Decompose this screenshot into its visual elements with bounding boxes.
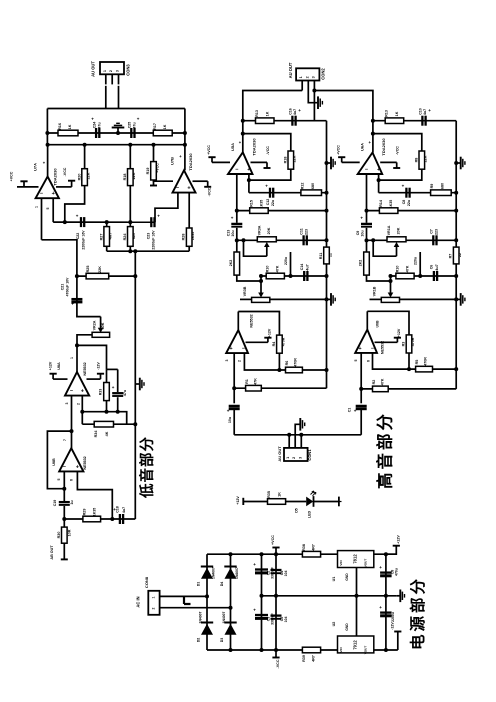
svg-text:3: 3 bbox=[116, 70, 120, 72]
terminal +12V out bbox=[386, 546, 396, 555]
wire wiper loop bbox=[244, 240, 267, 256]
wire T1 minus row bbox=[237, 210, 327, 212]
resistor R18t bbox=[288, 151, 294, 169]
svg-text:−: − bbox=[40, 191, 43, 197]
ground bbox=[317, 96, 319, 109]
svg-text:+: + bbox=[52, 191, 55, 197]
svg-text:4u7: 4u7 bbox=[293, 109, 297, 115]
wire T2 minus row bbox=[367, 210, 457, 212]
svg-text:VIN: VIN bbox=[339, 647, 343, 653]
resistor R13b bbox=[385, 118, 404, 124]
svg-text:10u: 10u bbox=[228, 417, 232, 423]
svg-text:GND: GND bbox=[345, 623, 349, 631]
resistor R1 bbox=[246, 385, 262, 391]
wire jog to pot wiper bbox=[367, 275, 391, 281]
svg-text:R6: R6 bbox=[285, 361, 289, 366]
svg-text:NE5532: NE5532 bbox=[249, 314, 253, 327]
wire bottom row bbox=[107, 250, 190, 252]
svg-text:R17: R17 bbox=[153, 123, 157, 130]
wire pot3b row bbox=[370, 298, 382, 300]
wire T3 left input bbox=[233, 353, 235, 403]
power +12V bbox=[53, 378, 67, 380]
svg-text:1N4007: 1N4007 bbox=[222, 611, 226, 623]
wire bbox=[46, 109, 48, 145]
wire bbox=[65, 186, 85, 223]
diode D1 bbox=[201, 566, 213, 568]
svg-text:R10: R10 bbox=[395, 266, 399, 273]
wire bbox=[249, 169, 291, 180]
svg-text:−: − bbox=[70, 389, 73, 395]
wire U7A + input bbox=[52, 198, 54, 222]
svg-text:TDA2030: TDA2030 bbox=[52, 168, 57, 186]
svg-text:1: 1 bbox=[35, 206, 39, 208]
resistor R18 bbox=[129, 145, 131, 169]
svg-text:22: 22 bbox=[458, 253, 462, 257]
svg-text:D1: D1 bbox=[197, 582, 201, 587]
svg-text:10u: 10u bbox=[231, 230, 235, 236]
power +VCC tap bbox=[272, 547, 279, 549]
svg-text:VOUT: VOUT bbox=[364, 646, 368, 655]
power -VCC bbox=[251, 161, 268, 163]
wire bottom rail bbox=[207, 649, 398, 651]
svg-text:10u: 10u bbox=[361, 230, 365, 236]
svg-text:C22: C22 bbox=[76, 233, 80, 240]
svg-text:1K35: 1K35 bbox=[93, 508, 97, 517]
svg-text:C10: C10 bbox=[419, 108, 423, 115]
svg-text:104: 104 bbox=[284, 617, 288, 623]
svg-text:C14: C14 bbox=[300, 264, 304, 271]
capacitor C7 bbox=[432, 235, 434, 245]
resistor R17 bbox=[153, 130, 172, 136]
wire bbox=[367, 311, 409, 335]
svg-text:U7B: U7B bbox=[170, 157, 175, 165]
wire U7B + input / resistor R28 bbox=[188, 193, 190, 228]
svg-text:2: 2 bbox=[152, 607, 156, 609]
svg-text:+: + bbox=[253, 562, 256, 567]
capacitor C12 bbox=[269, 188, 271, 198]
svg-text:C11: C11 bbox=[300, 228, 304, 234]
svg-text:1K: 1K bbox=[163, 124, 167, 129]
svg-text:R27: R27 bbox=[99, 234, 103, 241]
wire wiper loop bbox=[373, 240, 396, 256]
capacitor C6 bbox=[433, 271, 435, 281]
resistor 2K2 below C9t bbox=[366, 240, 368, 252]
resistor R11 on rail bbox=[324, 247, 330, 264]
capacitor C25 bbox=[130, 128, 132, 138]
svg-text:TDA2030: TDA2030 bbox=[188, 153, 193, 171]
svg-text:VOUT: VOUT bbox=[364, 559, 368, 568]
svg-text:+: + bbox=[265, 184, 268, 189]
potentiometer VR1A bbox=[396, 246, 398, 256]
svg-text:223: 223 bbox=[434, 229, 438, 235]
capacitor C23 bbox=[150, 217, 152, 227]
svg-text:C12: C12 bbox=[266, 199, 270, 206]
wire treble bus bbox=[243, 91, 302, 153]
svg-text:20K: 20K bbox=[397, 227, 401, 234]
svg-text:+VCC: +VCC bbox=[156, 163, 160, 173]
op-amp U7B bbox=[173, 170, 196, 192]
wire row1 T1 bbox=[243, 120, 327, 122]
wire output row bbox=[64, 518, 135, 520]
svg-text:R13: R13 bbox=[385, 110, 389, 117]
svg-text:D4: D4 bbox=[220, 582, 224, 587]
svg-text:VR1B: VR1B bbox=[373, 286, 377, 296]
wire pot3a row bbox=[240, 298, 252, 300]
svg-text:R19: R19 bbox=[146, 168, 150, 175]
svg-text:47K: 47K bbox=[254, 378, 258, 385]
svg-text:-12V: -12V bbox=[97, 362, 101, 370]
capacitor C18 bbox=[119, 514, 121, 524]
svg-text:CON2: CON2 bbox=[321, 68, 326, 80]
wire bbox=[118, 86, 120, 109]
wire U6B output bbox=[366, 311, 368, 329]
svg-text:22u: 22u bbox=[407, 200, 411, 206]
power +12V T4 bbox=[375, 341, 398, 343]
svg-text:4u7: 4u7 bbox=[423, 109, 427, 115]
svg-text:+: + bbox=[81, 389, 84, 395]
wire rail1 bottom bbox=[326, 370, 328, 388]
wire U8A inputs bbox=[71, 396, 73, 449]
wire rail2 bottom bbox=[455, 369, 457, 389]
svg-text:U8B: U8B bbox=[52, 458, 56, 466]
svg-text:2: 2 bbox=[77, 403, 81, 405]
svg-text:+: + bbox=[157, 214, 160, 219]
capacitor C9 bbox=[380, 611, 392, 613]
svg-text:C21: C21 bbox=[61, 284, 65, 291]
wire U2 gnd bbox=[356, 596, 358, 636]
wire pot left bbox=[77, 335, 107, 370]
svg-text:1N4007: 1N4007 bbox=[235, 567, 239, 579]
wire bbox=[184, 109, 186, 171]
regulator U2 7912 bbox=[338, 636, 374, 653]
svg-text:223: 223 bbox=[305, 229, 309, 235]
svg-text:R3: R3 bbox=[402, 342, 406, 347]
svg-text:+: + bbox=[76, 464, 79, 470]
wire T2 feedback row bbox=[379, 192, 457, 194]
wire pot row T1 bbox=[237, 239, 257, 241]
svg-text:22u: 22u bbox=[271, 200, 275, 206]
capacitor C4 104 bbox=[275, 548, 277, 658]
svg-text:+: + bbox=[253, 608, 256, 613]
wire U7B - input bbox=[155, 193, 178, 223]
resistor R9 bbox=[431, 190, 452, 196]
svg-text:VR3A: VR3A bbox=[258, 225, 262, 235]
resistor R39 bbox=[302, 647, 320, 653]
svg-text:+: + bbox=[187, 186, 190, 192]
svg-text:D5: D5 bbox=[295, 508, 299, 513]
wire T2 + input bbox=[378, 174, 380, 193]
svg-text:-VCC: -VCC bbox=[208, 187, 212, 196]
wire T1 - input bbox=[236, 174, 238, 211]
wire rail1 bbox=[326, 121, 328, 370]
svg-text:1K35: 1K35 bbox=[389, 200, 393, 209]
svg-text:3: 3 bbox=[311, 76, 315, 78]
wire bus1 bbox=[47, 108, 185, 110]
svg-text:470R: 470R bbox=[424, 357, 428, 366]
svg-text:R7: R7 bbox=[449, 254, 453, 259]
svg-text:D2: D2 bbox=[197, 638, 201, 643]
svg-text:47u: 47u bbox=[133, 122, 137, 128]
svg-text:1: 1 bbox=[152, 596, 156, 598]
svg-text:C18: C18 bbox=[116, 506, 120, 513]
svg-text:4u7: 4u7 bbox=[305, 264, 309, 270]
resistor R16t below C13 bbox=[236, 240, 238, 252]
svg-text:1K: 1K bbox=[278, 492, 282, 497]
svg-text:22K: 22K bbox=[424, 155, 428, 162]
svg-text:U8A: U8A bbox=[57, 362, 61, 370]
capacitor C24 bbox=[95, 128, 97, 138]
svg-text:6: 6 bbox=[70, 479, 74, 481]
wire bbox=[379, 169, 422, 180]
svg-text:470R: 470R bbox=[281, 337, 285, 346]
svg-text:2K2: 2K2 bbox=[229, 260, 233, 267]
svg-text:+: + bbox=[231, 216, 234, 221]
polarity mark bbox=[184, 596, 191, 604]
capacitor C9t bbox=[366, 211, 368, 223]
svg-text:C23: C23 bbox=[146, 233, 150, 240]
resistor R20 bbox=[84, 145, 86, 169]
wire bbox=[300, 435, 302, 448]
svg-text:U5A: U5A bbox=[230, 143, 235, 151]
wire bbox=[314, 501, 339, 503]
svg-text:C19: C19 bbox=[53, 500, 57, 507]
svg-text:低音部分: 低音部分 bbox=[138, 436, 156, 499]
wire bbox=[233, 410, 235, 435]
svg-text:+12V: +12V bbox=[397, 328, 401, 337]
terminal bbox=[338, 497, 340, 507]
ground bbox=[397, 595, 401, 597]
wire jog to pot3a wiper bbox=[237, 275, 261, 281]
svg-text:C7: C7 bbox=[429, 229, 433, 234]
svg-text:R5: R5 bbox=[415, 360, 419, 365]
svg-text:5: 5 bbox=[46, 207, 50, 209]
svg-text:D3: D3 bbox=[220, 638, 224, 643]
svg-text:1K35: 1K35 bbox=[191, 232, 195, 241]
svg-text:−: − bbox=[235, 167, 238, 173]
ground bbox=[117, 128, 119, 134]
svg-text:4700uF 16V: 4700uF 16V bbox=[65, 277, 69, 296]
wire stub 220u bbox=[419, 252, 421, 276]
svg-text:R15: R15 bbox=[249, 200, 253, 207]
svg-text:+: + bbox=[360, 216, 363, 221]
svg-text:680: 680 bbox=[441, 183, 445, 189]
svg-text:-VCC: -VCC bbox=[266, 146, 270, 155]
resistor R29 bbox=[83, 516, 101, 522]
wire T3 feedback row bbox=[244, 353, 326, 370]
capacitor C22 bbox=[80, 217, 82, 227]
svg-text:4K: 4K bbox=[105, 431, 109, 436]
wire cap row bbox=[53, 221, 155, 223]
wire rail2 bbox=[455, 121, 457, 369]
svg-text:47K: 47K bbox=[381, 378, 385, 385]
svg-text:4u7: 4u7 bbox=[435, 264, 439, 270]
wire bbox=[314, 91, 373, 153]
power -VCC bbox=[56, 186, 72, 188]
wire bbox=[118, 74, 120, 84]
svg-text:+12V: +12V bbox=[396, 535, 400, 544]
svg-text:R10: R10 bbox=[266, 266, 270, 273]
capacitor C3 3300uF bbox=[255, 614, 268, 616]
capacitor C11 bbox=[302, 235, 304, 245]
wire bbox=[288, 435, 290, 448]
potentiometer VR2A bbox=[100, 317, 102, 329]
svg-text:GND: GND bbox=[345, 573, 349, 581]
wire R1 row bbox=[234, 387, 326, 389]
svg-text:+: + bbox=[227, 409, 230, 414]
svg-text:50K: 50K bbox=[101, 322, 105, 329]
svg-text:6: 6 bbox=[367, 360, 371, 362]
svg-text:R2: R2 bbox=[372, 380, 376, 385]
svg-text:+: + bbox=[428, 108, 431, 113]
wire bbox=[243, 501, 267, 503]
wire T1 feedback row bbox=[249, 192, 327, 194]
wire bbox=[308, 81, 317, 103]
resistor R10b bbox=[396, 273, 414, 279]
svg-text:AU OUT: AU OUT bbox=[277, 446, 282, 462]
svg-text:R25: R25 bbox=[86, 266, 90, 273]
svg-text:C25: C25 bbox=[128, 122, 132, 129]
svg-text:+: + bbox=[91, 117, 94, 122]
svg-text:R18: R18 bbox=[283, 157, 287, 164]
svg-text:高音部分: 高音部分 bbox=[375, 411, 395, 489]
svg-text:+12V: +12V bbox=[236, 496, 240, 505]
power +12V T3 bbox=[246, 341, 268, 343]
svg-text:+12V: +12V bbox=[49, 361, 53, 370]
svg-text:+: + bbox=[379, 605, 382, 610]
svg-text:+VCC: +VCC bbox=[207, 145, 211, 155]
diode D2 bbox=[201, 622, 213, 624]
svg-text:C16: C16 bbox=[289, 108, 293, 115]
svg-text:2: 2 bbox=[109, 70, 113, 72]
wire U8A output bbox=[76, 345, 78, 372]
feedback network R33 C26 bbox=[107, 368, 118, 370]
capacitor C13 bbox=[236, 211, 238, 223]
wire bbox=[360, 410, 362, 435]
svg-text:NE5532: NE5532 bbox=[83, 362, 87, 375]
resistor R15 bbox=[250, 208, 269, 214]
svg-text:2K2: 2K2 bbox=[359, 260, 363, 267]
diode D3 bbox=[224, 622, 236, 624]
svg-text:VR3B: VR3B bbox=[243, 286, 247, 296]
capacitor C2 bbox=[229, 405, 240, 407]
power +VCC bbox=[212, 161, 230, 163]
svg-text:1: 1 bbox=[103, 70, 107, 72]
capacitor C1 bbox=[356, 405, 367, 407]
wire AC1 bbox=[160, 595, 207, 597]
wire bus2 bbox=[47, 132, 185, 134]
capacitor C5 104 bbox=[271, 614, 282, 616]
svg-text:10R: 10R bbox=[68, 529, 72, 536]
svg-text:AC IN: AC IN bbox=[135, 596, 140, 607]
resistor R24 bbox=[128, 227, 134, 247]
power +VCC bbox=[17, 186, 39, 188]
svg-text:VR2A: VR2A bbox=[93, 320, 97, 330]
resistor R30 bbox=[63, 519, 65, 527]
ground bbox=[456, 298, 461, 300]
connector CON2 AU OUT (treble) bbox=[296, 68, 319, 80]
svg-text:电源部分: 电源部分 bbox=[408, 576, 427, 650]
LED D5 bbox=[306, 497, 313, 507]
svg-text:TDA2030: TDA2030 bbox=[381, 138, 386, 156]
svg-text:VIN: VIN bbox=[339, 560, 343, 566]
wire bbox=[129, 186, 131, 227]
svg-text:R16: R16 bbox=[58, 123, 62, 130]
power -12V bbox=[87, 378, 101, 380]
svg-text:1K35: 1K35 bbox=[260, 200, 264, 209]
power +VCC bbox=[342, 161, 360, 163]
svg-text:−: − bbox=[365, 167, 368, 173]
svg-text:2: 2 bbox=[305, 76, 309, 78]
svg-text:620: 620 bbox=[132, 233, 136, 239]
svg-text:−: − bbox=[371, 346, 374, 352]
wire bridge column1 bbox=[206, 554, 208, 650]
svg-text:R1: R1 bbox=[245, 379, 249, 384]
wire bbox=[111, 74, 113, 84]
svg-text:1K: 1K bbox=[395, 111, 399, 116]
svg-text:1: 1 bbox=[299, 76, 303, 78]
wire top rail bbox=[207, 553, 396, 555]
svg-text:LED: LED bbox=[308, 511, 312, 519]
svg-text:2200uF 16V: 2200uF 16V bbox=[152, 230, 156, 250]
svg-text:+: + bbox=[247, 167, 250, 173]
svg-text:+VCC: +VCC bbox=[337, 145, 341, 155]
ground bbox=[135, 383, 140, 385]
terminal -12V out bbox=[397, 632, 399, 651]
ground bbox=[327, 298, 332, 300]
svg-text:22K: 22K bbox=[132, 172, 136, 179]
svg-text:R20: R20 bbox=[78, 174, 82, 181]
svg-text:22: 22 bbox=[328, 253, 332, 257]
svg-text:2200uF 16V: 2200uF 16V bbox=[81, 230, 85, 250]
resistor R3 bbox=[406, 335, 412, 353]
resistor R2 bbox=[373, 386, 389, 392]
svg-text:C24: C24 bbox=[93, 122, 97, 129]
wire center rail bbox=[262, 595, 397, 597]
svg-text:R9: R9 bbox=[430, 184, 434, 189]
svg-text:1K: 1K bbox=[68, 124, 72, 129]
svg-text:47K: 47K bbox=[276, 265, 280, 272]
svg-text:TDA2030: TDA2030 bbox=[252, 138, 257, 156]
svg-text:R24: R24 bbox=[123, 233, 127, 241]
svg-text:R13: R13 bbox=[255, 110, 259, 117]
power +VCC bbox=[154, 180, 174, 181]
svg-text:7812: 7812 bbox=[352, 554, 357, 564]
svg-text:47K: 47K bbox=[405, 265, 409, 272]
op-amp U8A bbox=[65, 372, 89, 396]
svg-text:104: 104 bbox=[284, 571, 288, 577]
svg-text:5: 5 bbox=[57, 478, 61, 480]
capacitor C10 bbox=[421, 116, 423, 126]
svg-text:47u: 47u bbox=[123, 390, 127, 396]
svg-text:-VCC: -VCC bbox=[276, 659, 280, 668]
svg-text:1: 1 bbox=[286, 457, 290, 459]
op-amp U7A bbox=[47, 145, 49, 177]
wire bbox=[295, 424, 299, 448]
capacitor C8t bbox=[405, 188, 407, 198]
resistor R38 bbox=[302, 551, 320, 557]
wire audio out feed bbox=[234, 434, 361, 436]
svg-text:4R7: 4R7 bbox=[312, 544, 316, 551]
svg-text:AB OUT: AB OUT bbox=[50, 545, 54, 560]
svg-text:2: 2 bbox=[292, 457, 296, 459]
connector CON3 AU OUT (bass input) bbox=[100, 62, 124, 74]
wire U7A feedback bbox=[42, 240, 101, 317]
wire row1 T2 bbox=[373, 120, 456, 122]
svg-text:470u: 470u bbox=[394, 568, 398, 576]
svg-text:22K: 22K bbox=[87, 172, 91, 179]
svg-text:−: − bbox=[176, 186, 179, 192]
svg-text:3: 3 bbox=[225, 359, 229, 361]
